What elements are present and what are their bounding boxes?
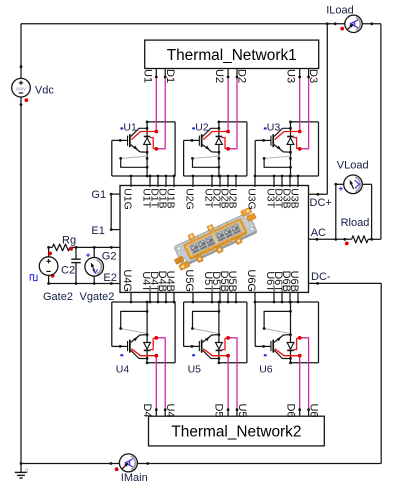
svg-text:DC+: DC+ bbox=[310, 197, 332, 209]
svg-text:Vgate2: Vgate2 bbox=[80, 291, 115, 303]
svg-text:IMain: IMain bbox=[121, 472, 148, 484]
svg-text:U6B: U6B bbox=[288, 271, 300, 292]
svg-text:U2: U2 bbox=[213, 69, 225, 83]
svg-text:U2: U2 bbox=[195, 121, 209, 133]
svg-text:E1: E1 bbox=[91, 225, 104, 237]
svg-text:U6: U6 bbox=[307, 403, 319, 417]
svg-text:VLoad: VLoad bbox=[337, 159, 369, 171]
svg-text:D4: D4 bbox=[141, 403, 153, 417]
svg-text:U4G: U4G bbox=[121, 269, 133, 292]
svg-text:U4B: U4B bbox=[164, 271, 176, 292]
svg-text:D6: D6 bbox=[284, 403, 296, 417]
svg-text:AC: AC bbox=[311, 227, 326, 239]
svg-text:U1G: U1G bbox=[121, 188, 133, 210]
svg-text:D3: D3 bbox=[307, 69, 319, 83]
svg-text:U5: U5 bbox=[236, 403, 248, 417]
svg-text:U2G: U2G bbox=[183, 188, 195, 210]
svg-text:U3B: U3B bbox=[288, 188, 300, 208]
svg-text:U3: U3 bbox=[267, 121, 281, 133]
svg-text:U3G: U3G bbox=[245, 188, 257, 210]
svg-text:D1: D1 bbox=[164, 69, 176, 83]
svg-text:U6G: U6G bbox=[245, 269, 257, 292]
svg-text:Rg: Rg bbox=[62, 235, 76, 247]
svg-text:U2B: U2B bbox=[226, 188, 238, 208]
svg-text:0: 0 bbox=[25, 469, 28, 475]
svg-text:U1B: U1B bbox=[164, 188, 176, 208]
svg-text:Thermal_Network2: Thermal_Network2 bbox=[171, 424, 301, 441]
svg-text:U4: U4 bbox=[116, 364, 130, 376]
svg-text:G1: G1 bbox=[91, 189, 106, 201]
svg-text:U1: U1 bbox=[123, 121, 137, 133]
svg-text:Rload: Rload bbox=[341, 217, 370, 229]
svg-text:C2: C2 bbox=[61, 264, 75, 276]
svg-text:Thermal_Network1: Thermal_Network1 bbox=[167, 47, 297, 64]
svg-text:G2: G2 bbox=[102, 251, 117, 263]
svg-text:U1: U1 bbox=[141, 69, 153, 83]
svg-text:900V: 900V bbox=[16, 87, 26, 92]
svg-text:Vdc: Vdc bbox=[35, 85, 54, 97]
svg-text:Gate2: Gate2 bbox=[43, 291, 73, 303]
svg-text:D5: D5 bbox=[213, 403, 225, 417]
svg-text:U5G: U5G bbox=[183, 269, 195, 292]
svg-text:DC-: DC- bbox=[311, 271, 331, 283]
svg-text:U5: U5 bbox=[188, 364, 202, 376]
svg-text:ILoad: ILoad bbox=[326, 4, 354, 16]
svg-text:U3: U3 bbox=[285, 69, 297, 83]
svg-text:D2: D2 bbox=[236, 69, 248, 83]
svg-text:U6: U6 bbox=[259, 364, 273, 376]
svg-text:U5B: U5B bbox=[226, 271, 238, 292]
svg-text:E2: E2 bbox=[103, 272, 116, 284]
svg-text:U4: U4 bbox=[164, 403, 176, 417]
